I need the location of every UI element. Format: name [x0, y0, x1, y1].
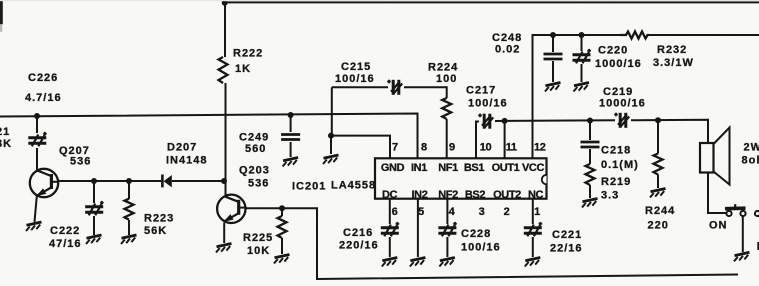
svg-text:8: 8 — [421, 142, 427, 154]
svg-text:7: 7 — [392, 142, 398, 154]
svg-text:1: 1 — [534, 206, 540, 218]
svg-text:6: 6 — [392, 206, 398, 218]
svg-text:220/16: 220/16 — [339, 240, 379, 252]
svg-text:R225: R225 — [243, 232, 273, 244]
svg-text:220: 220 — [648, 220, 669, 232]
svg-text:4.7/16: 4.7/16 — [25, 92, 62, 104]
svg-text:3.3/1W: 3.3/1W — [653, 57, 694, 69]
svg-text:IN1: IN1 — [411, 162, 427, 174]
svg-text:100/16: 100/16 — [335, 73, 375, 85]
svg-text:9: 9 — [449, 142, 455, 154]
svg-text:11: 11 — [506, 142, 517, 154]
svg-text:536: 536 — [70, 156, 91, 168]
svg-text:BS1: BS1 — [464, 162, 484, 174]
svg-text:NF2: NF2 — [438, 189, 458, 201]
svg-text:536: 536 — [248, 178, 269, 190]
svg-text:3.3: 3.3 — [601, 190, 619, 202]
svg-text:2W: 2W — [744, 142, 759, 154]
svg-text:1000/16: 1000/16 — [595, 58, 642, 70]
svg-text:R223: R223 — [144, 213, 174, 225]
svg-text:IN4148: IN4148 — [166, 155, 207, 167]
svg-text:C221: C221 — [552, 229, 582, 241]
svg-text:C228: C228 — [461, 228, 491, 240]
svg-text:C222: C222 — [50, 225, 80, 237]
svg-text:R222: R222 — [233, 48, 263, 60]
svg-text:8ohm: 8ohm — [742, 155, 759, 167]
svg-text:100/16: 100/16 — [461, 242, 501, 254]
svg-text:0.1(M): 0.1(M) — [601, 159, 639, 171]
svg-text:5: 5 — [418, 206, 424, 218]
svg-text:560: 560 — [245, 143, 266, 155]
svg-text:R232: R232 — [657, 44, 687, 56]
svg-text:56K: 56K — [144, 225, 167, 237]
svg-text:R224: R224 — [428, 62, 458, 74]
svg-text:GND: GND — [381, 162, 405, 174]
svg-text:NC: NC — [528, 189, 544, 201]
svg-text:2: 2 — [504, 206, 510, 218]
svg-text:21: 21 — [0, 126, 10, 138]
svg-text:0.02: 0.02 — [495, 44, 520, 56]
svg-text:22/16: 22/16 — [550, 243, 583, 255]
svg-text:10K: 10K — [247, 245, 270, 257]
svg-text:100/16: 100/16 — [468, 98, 508, 110]
svg-text:BS2: BS2 — [465, 189, 485, 201]
svg-text:C215: C215 — [341, 61, 371, 73]
svg-text:DC: DC — [382, 189, 398, 201]
svg-text:1K: 1K — [235, 63, 251, 75]
svg-text:C248: C248 — [492, 32, 522, 44]
svg-text:C226: C226 — [28, 72, 58, 84]
svg-text:OUT2: OUT2 — [493, 189, 521, 201]
svg-text:R244: R244 — [645, 205, 675, 217]
svg-text:C218: C218 — [601, 145, 631, 157]
svg-text:C219: C219 — [603, 86, 633, 98]
svg-text:IC201: IC201 — [292, 181, 326, 193]
svg-text:C249: C249 — [239, 132, 269, 144]
svg-text:3K: 3K — [0, 138, 12, 150]
svg-text:100: 100 — [436, 73, 457, 85]
svg-text:D207: D207 — [167, 142, 197, 154]
svg-text:NF1: NF1 — [438, 162, 458, 174]
svg-text:IN2: IN2 — [412, 189, 428, 201]
svg-text:12: 12 — [534, 142, 546, 154]
svg-text:VCC: VCC — [522, 162, 544, 174]
svg-text:1000/16: 1000/16 — [599, 98, 646, 110]
svg-text:R219: R219 — [601, 176, 631, 188]
svg-text:ON: ON — [709, 220, 728, 232]
svg-text:47/16: 47/16 — [49, 238, 82, 250]
svg-text:3: 3 — [479, 206, 485, 218]
svg-text:10: 10 — [480, 142, 492, 154]
svg-text:C216: C216 — [343, 227, 373, 239]
svg-text:LA4558: LA4558 — [331, 180, 376, 192]
svg-text:C217: C217 — [466, 85, 496, 97]
svg-text:C220: C220 — [598, 45, 628, 57]
svg-text:Q203: Q203 — [239, 165, 270, 177]
svg-text:OUT1: OUT1 — [492, 162, 520, 174]
